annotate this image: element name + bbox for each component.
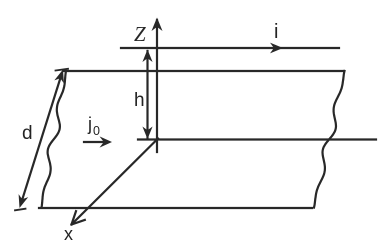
svg-text:x: x (64, 224, 73, 244)
svg-text:j: j (87, 114, 92, 134)
svg-text:Z: Z (134, 22, 146, 46)
svg-text:h: h (134, 90, 145, 111)
svg-text:0: 0 (93, 124, 100, 138)
svg-text:i: i (274, 21, 278, 43)
svg-text:d: d (22, 123, 33, 144)
